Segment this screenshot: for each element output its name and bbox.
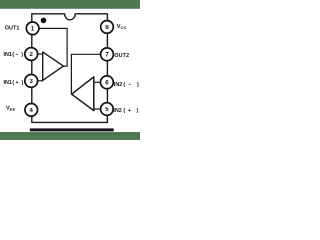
bottom green band xyxy=(0,132,140,140)
svg-text:(: ( xyxy=(123,108,125,114)
svg-text:IN2: IN2 xyxy=(113,108,121,114)
IC package body xyxy=(32,14,108,123)
pin 7 xyxy=(101,48,114,61)
svg-text:EE: EE xyxy=(10,107,16,112)
svg-text:+: + xyxy=(128,108,131,114)
pin 8 xyxy=(101,21,114,34)
page background xyxy=(0,0,140,140)
svg-text:CC: CC xyxy=(121,25,127,30)
svg-text:+: + xyxy=(15,80,18,86)
pin 1 xyxy=(26,22,39,35)
svg-text:−: − xyxy=(15,52,18,58)
pin 2 xyxy=(25,48,38,61)
wire out2 xyxy=(71,54,100,94)
wire out1 xyxy=(39,28,67,66)
svg-text:−: − xyxy=(128,82,131,88)
svg-text:): ) xyxy=(137,108,139,114)
wire in2+ xyxy=(94,108,101,110)
wire in2- xyxy=(94,81,101,83)
op-amp A1 xyxy=(43,52,64,81)
svg-text:): ) xyxy=(137,82,139,88)
top green band xyxy=(0,0,140,9)
label IN2(+) xyxy=(113,108,138,114)
label IN1(+) xyxy=(4,80,24,86)
pin 6 xyxy=(101,76,114,89)
bottom black rule xyxy=(30,128,114,131)
label IN2(-) xyxy=(114,82,139,88)
svg-text:IN1: IN1 xyxy=(4,80,12,86)
svg-text:IN2: IN2 xyxy=(114,82,122,88)
svg-text:(: ( xyxy=(12,52,14,58)
pin-1 dot xyxy=(41,18,47,24)
pin 5 xyxy=(101,103,114,116)
wire in1+ xyxy=(37,80,43,82)
op-amp A2 xyxy=(72,77,94,111)
svg-text:IN1: IN1 xyxy=(4,52,12,58)
svg-text:OUT2: OUT2 xyxy=(114,53,129,59)
label IN1(-) xyxy=(4,52,24,58)
pin 3 xyxy=(25,75,38,88)
svg-text:(: ( xyxy=(12,80,14,86)
wire in1- xyxy=(37,53,43,55)
svg-text:): ) xyxy=(21,52,23,58)
svg-text:(: ( xyxy=(123,82,125,88)
pin 4 xyxy=(25,104,38,117)
svg-text:OUT1: OUT1 xyxy=(5,26,20,32)
svg-text:): ) xyxy=(22,80,24,86)
